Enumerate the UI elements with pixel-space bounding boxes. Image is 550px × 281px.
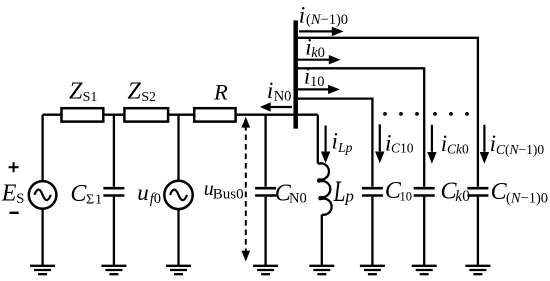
wire C10 bottom [371,197,373,266]
ground Ck0 [412,266,437,274]
wire branch (N-1)0 top [298,38,478,187]
ground Lp [309,266,334,274]
svg-text:i: i [332,129,338,154]
capacitor Ck0 [414,187,435,190]
svg-text:C: C [70,181,87,207]
capacitor CSigma1 [103,187,124,190]
svg-text:10: 10 [310,74,325,90]
source uf0 [164,181,192,209]
wire C(N-1)0 bottom [477,197,479,266]
ground uf0 [166,266,191,274]
wire uf0 bottom [177,209,179,265]
svg-text:C(N−1)0: C(N−1)0 [496,142,544,157]
svg-text:k0: k0 [455,188,470,205]
node dots separator group 1 [383,112,419,116]
label + [9,162,19,172]
svg-text:i: i [299,2,305,27]
wire ES vertical bottom [41,209,43,266]
node dots separator group 2 [433,112,469,116]
capacitor CN0 [255,187,276,190]
wire CS1 bottom [113,197,115,266]
svg-text:S2: S2 [141,90,156,105]
wire branch k0 [298,68,424,187]
svg-text:N0: N0 [289,190,307,206]
wire ES vertical top [41,115,43,182]
resistor R [194,108,235,121]
svg-text:N0: N0 [274,88,292,104]
current arrow iLp [321,126,330,164]
svg-text:S1: S1 [83,90,98,105]
current arrow i(N-1)0 [299,27,344,36]
svg-text:L: L [333,175,346,208]
svg-text:i: i [267,78,273,103]
svg-text:Lp: Lp [337,140,353,155]
inductor Lp [318,163,332,214]
svg-text:E: E [1,181,17,207]
svg-text:S: S [16,191,24,207]
svg-text:Z: Z [69,78,83,104]
svg-text:R: R [213,80,228,105]
svg-text:u: u [137,180,149,205]
svg-text:C10: C10 [391,141,414,156]
wire CN0 top [264,115,266,187]
current arrow iN0 [260,102,292,111]
svg-text:k0: k0 [311,45,325,61]
svg-text:Ck0: Ck0 [447,141,469,156]
svg-text:(N−1)0: (N−1)0 [306,12,348,28]
measurement arrow uBus0 dashed double head [241,117,250,262]
wire Lp branch vertical [317,115,319,164]
current arrow iC10 [375,124,384,163]
ground C10 [360,266,385,274]
current arrow i10 [298,85,340,94]
ground CSigma1 [101,266,126,274]
wire CS1 top [113,115,115,187]
source ES [29,181,57,209]
bus bar [293,20,298,128]
current arrow iC(N-1)0 [480,125,489,164]
current arrow iCk0 [427,125,436,164]
svg-text:p: p [344,187,354,206]
capacitor C10 [362,187,383,190]
wire Ck0 bottom [423,197,425,266]
current arrow ik0 [298,55,341,64]
svg-text:Z: Z [128,78,142,104]
svg-text:0: 0 [154,191,161,207]
wire CN0 bottom [264,197,266,266]
wire Lp bottom [321,215,323,266]
ground CN0 [253,266,278,274]
ground ES [30,266,55,274]
svg-text:Σ1: Σ1 [86,193,103,208]
svg-text:10: 10 [400,189,413,203]
svg-text:(N−1)0: (N−1)0 [506,191,548,207]
wire main horizontal from ES top-left corner to Lp corner [43,114,318,116]
label minus [10,212,19,214]
resistor ZS1 [62,108,104,121]
wire branch 10 [298,99,373,187]
resistor ZS2 [124,108,168,121]
ground C(N-1)0 [465,266,490,274]
wire uf0 top [177,115,179,181]
capacitor C(N-1)0 [467,187,488,190]
svg-text:Bus0: Bus0 [213,187,244,203]
